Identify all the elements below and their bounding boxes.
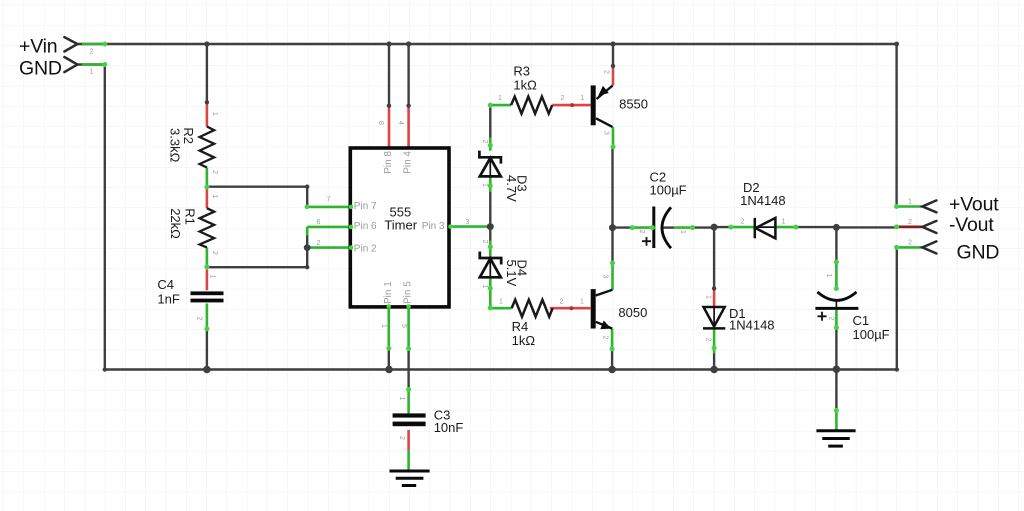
svg-text:5.1V: 5.1V [504, 260, 519, 287]
svg-text:Pin 7: Pin 7 [354, 201, 377, 212]
svg-text:1: 1 [581, 95, 585, 102]
svg-text:2: 2 [481, 240, 488, 244]
svg-text:1: 1 [499, 299, 503, 306]
svg-text:1: 1 [211, 195, 218, 199]
svg-text:Pin 3: Pin 3 [422, 221, 445, 232]
svg-text:2: 2 [705, 338, 712, 342]
svg-text:1: 1 [209, 275, 216, 279]
svg-text:Pin 2: Pin 2 [354, 244, 377, 255]
svg-text:R4: R4 [512, 319, 529, 334]
svg-text:Pin 6: Pin 6 [354, 221, 377, 232]
svg-text:100µF: 100µF [853, 327, 890, 342]
svg-text:1: 1 [580, 299, 584, 306]
svg-text:2: 2 [560, 299, 564, 306]
svg-text:2: 2 [398, 436, 405, 440]
svg-text:1N4148: 1N4148 [729, 318, 775, 333]
svg-text:2: 2 [908, 219, 912, 226]
svg-text:1: 1 [825, 274, 832, 278]
svg-text:4: 4 [397, 121, 404, 125]
svg-text:100µF: 100µF [650, 183, 687, 198]
svg-text:+Vout: +Vout [949, 194, 999, 216]
svg-text:Pin 8: Pin 8 [383, 151, 394, 174]
svg-text:3: 3 [603, 131, 610, 135]
svg-text:3.3kΩ: 3.3kΩ [168, 128, 183, 163]
svg-text:1: 1 [481, 285, 488, 289]
svg-text:1: 1 [782, 219, 786, 226]
svg-text:7: 7 [327, 197, 331, 204]
svg-text:4.7V: 4.7V [504, 175, 519, 202]
svg-text:R3: R3 [513, 64, 530, 79]
svg-text:GND: GND [19, 58, 62, 80]
svg-text:2: 2 [741, 219, 745, 226]
svg-text:1: 1 [90, 69, 94, 76]
svg-text:GND: GND [957, 242, 1000, 264]
svg-text:2: 2 [638, 230, 645, 234]
svg-text:2: 2 [317, 240, 321, 247]
svg-text:1: 1 [679, 230, 686, 234]
svg-text:2: 2 [481, 140, 488, 144]
svg-text:3: 3 [602, 275, 609, 279]
svg-text:C1: C1 [853, 313, 870, 328]
svg-text:Pin 5: Pin 5 [403, 281, 414, 304]
svg-text:6: 6 [317, 219, 321, 226]
svg-text:22kΩ: 22kΩ [168, 208, 183, 239]
svg-text:1: 1 [398, 397, 405, 401]
svg-text:1kΩ: 1kΩ [512, 333, 536, 348]
svg-text:3: 3 [466, 219, 470, 226]
svg-text:2: 2 [196, 317, 203, 321]
svg-text:1: 1 [380, 324, 387, 328]
svg-text:2: 2 [603, 70, 610, 74]
svg-text:2: 2 [908, 240, 912, 247]
svg-text:8050: 8050 [618, 305, 647, 320]
svg-text:1: 1 [705, 295, 712, 299]
svg-text:8: 8 [377, 121, 384, 125]
svg-text:1: 1 [498, 95, 502, 102]
svg-text:2: 2 [211, 251, 218, 255]
svg-text:2: 2 [828, 317, 835, 321]
svg-text:Timer: Timer [384, 217, 417, 232]
svg-text:1: 1 [211, 112, 218, 116]
svg-text:2: 2 [602, 336, 609, 340]
svg-text:R1: R1 [183, 208, 198, 225]
svg-text:10nF: 10nF [434, 420, 464, 435]
svg-text:Pin 4: Pin 4 [403, 151, 414, 174]
svg-text:Pin 1: Pin 1 [383, 281, 394, 304]
svg-text:2: 2 [211, 170, 218, 174]
svg-text:2: 2 [90, 49, 94, 56]
svg-text:8550: 8550 [619, 97, 648, 112]
svg-text:1kΩ: 1kΩ [513, 78, 537, 93]
svg-text:-Vout: -Vout [949, 214, 994, 236]
svg-text:1N4148: 1N4148 [740, 193, 786, 208]
svg-text:1: 1 [908, 199, 912, 206]
svg-text:2: 2 [561, 95, 565, 102]
svg-text:1nF: 1nF [157, 292, 179, 307]
svg-text:5: 5 [400, 324, 407, 328]
svg-text:1: 1 [481, 183, 488, 187]
svg-text:C4: C4 [157, 277, 174, 292]
svg-text:+Vin: +Vin [19, 36, 57, 58]
